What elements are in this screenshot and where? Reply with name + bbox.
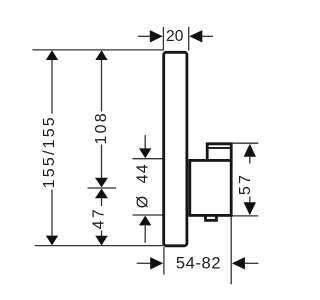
svg-text:155/155: 155/155 <box>41 115 58 188</box>
dimension 54-82 left extension line <box>163 247 165 275</box>
svg-text:47: 47 <box>90 207 107 229</box>
dimension Ø44 upper arrow (points down onto tick) <box>139 148 151 158</box>
dimension 20 left arrow (points right) <box>150 30 163 42</box>
dimension 108 line upper segment <box>101 60 103 112</box>
dimension 20 left tail <box>138 35 150 37</box>
handle bottom tab <box>206 216 217 220</box>
bottom reference line (plate bottom level) <box>35 245 163 247</box>
handle body <box>190 160 231 215</box>
dimension Ø44 lower tail <box>144 225 146 242</box>
dimension 47 bottom arrow <box>95 236 107 246</box>
svg-text:54-82: 54-82 <box>176 255 221 273</box>
dimension 54-82 right tail <box>245 262 259 264</box>
junction tick between 108 and 47 <box>88 187 117 189</box>
svg-text:108: 108 <box>93 111 110 144</box>
dimension 155/155 line lower segment <box>51 190 53 237</box>
dimension Ø44 lower arrow (points up onto tick) <box>139 216 151 226</box>
dimension 54-82 left tail <box>137 262 151 264</box>
dimension 54-82 right arrow (points left) <box>232 257 245 269</box>
dimension 108 top arrow <box>95 50 107 60</box>
dimension 20 right arrow (points left) <box>189 30 202 42</box>
dimension 57 top tail <box>249 157 251 164</box>
dimension 57 bottom tail <box>249 197 251 203</box>
dimension 54-82 left arrow (points right) <box>150 257 163 269</box>
dimension 57 bottom extension tick <box>231 215 259 217</box>
dimension 155/155 line upper segment <box>51 60 53 114</box>
svg-text:57: 57 <box>237 173 254 195</box>
dimension 47 line upper segment <box>101 198 103 206</box>
dimension 108 bottom arrow <box>95 178 108 188</box>
dimension Ø44 bottom extension tick <box>133 214 164 216</box>
dimension 57 top arrow (points up) <box>244 144 256 157</box>
dimension 155/155 top arrow <box>46 50 58 60</box>
top reference line (plate top level) <box>32 49 163 51</box>
dimension 20 right extension line <box>188 27 190 51</box>
dimension 155/155 bottom arrow <box>46 236 58 246</box>
handle paddle (lever top) <box>207 144 231 160</box>
svg-text:20: 20 <box>166 28 184 45</box>
dimension 57 bottom arrow (points down) <box>244 202 256 215</box>
wall plate (side view, vertical bar) <box>164 52 187 246</box>
dimension Ø44 top extension tick <box>133 158 164 160</box>
dimension 20 right tail <box>202 35 213 37</box>
dimension 47 line lower segment <box>101 231 103 237</box>
dimension Ø44 upper tail <box>144 135 146 149</box>
dimension 57 top extension tick <box>233 142 259 144</box>
dimension 54-82 right extension line <box>230 216 232 284</box>
dimension 20 left extension line <box>162 27 164 51</box>
dimension 108 line lower segment <box>101 145 103 179</box>
svg-text:Ø 44: Ø 44 <box>135 163 152 208</box>
dimension 47 top arrow <box>95 189 108 199</box>
handle paddle inner line <box>208 147 230 149</box>
